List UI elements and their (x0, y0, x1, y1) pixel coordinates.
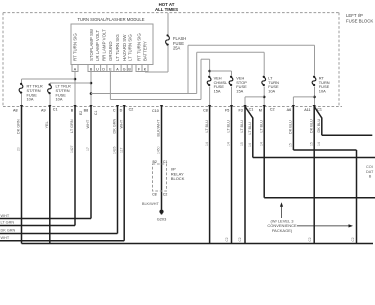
svg-text:B2: B2 (153, 160, 157, 164)
svg-text:D: D (102, 67, 105, 71)
svg-text:15A: 15A (236, 89, 243, 94)
svg-text:1426: 1426 (113, 146, 117, 154)
svg-text:LT BLU: LT BLU (227, 120, 231, 133)
svg-text:10A: 10A (268, 89, 275, 94)
svg-text:14: 14 (317, 142, 321, 146)
svg-text:C2: C2 (351, 237, 355, 241)
svg-text:DAT: DAT (366, 170, 374, 174)
svg-text:LT TURN SIG: LT TURN SIG (115, 34, 120, 61)
svg-text:YEL: YEL (45, 121, 49, 128)
svg-text:LT TURN SIG: LT TURN SIG (127, 34, 132, 61)
svg-text:10A: 10A (56, 97, 63, 102)
svg-text:DK BLU: DK BLU (317, 119, 321, 133)
svg-text:C1: C1 (163, 160, 168, 164)
svg-text:15: 15 (289, 143, 293, 147)
svg-text:14: 14 (205, 142, 209, 146)
svg-text:ALL TIMES: ALL TIMES (155, 7, 178, 12)
svg-text:F5: F5 (225, 109, 229, 113)
svg-text:B8: B8 (84, 109, 89, 113)
svg-text:25A: 25A (173, 46, 181, 51)
svg-text:C10: C10 (152, 109, 159, 113)
svg-text:STOPLAMP SW: STOPLAMP SW (89, 28, 94, 61)
svg-text:B: B (369, 175, 372, 179)
svg-text:14: 14 (248, 143, 252, 147)
svg-text:C2: C2 (308, 237, 312, 241)
svg-text:14: 14 (259, 142, 263, 146)
svg-text:LT BLU: LT BLU (259, 120, 263, 133)
svg-text:WHT: WHT (1, 214, 10, 218)
svg-text:D: D (120, 109, 123, 113)
svg-text:HOT AT: HOT AT (159, 2, 175, 7)
svg-text:DK GRN: DK GRN (17, 119, 21, 134)
svg-text:C1: C1 (53, 108, 58, 112)
svg-text:DK GRN: DK GRN (1, 229, 16, 233)
svg-text:C8: C8 (203, 109, 208, 113)
svg-text:10A: 10A (319, 89, 326, 94)
svg-text:DK GRN: DK GRN (113, 118, 117, 133)
svg-text:LT BLU: LT BLU (205, 120, 209, 133)
svg-text:DK BLU: DK BLU (289, 120, 293, 134)
svg-text:WHT: WHT (1, 236, 10, 240)
svg-text:117: 117 (119, 147, 123, 153)
svg-text:1450: 1450 (157, 146, 161, 154)
svg-text:RT TURN SIG: RT TURN SIG (73, 33, 78, 61)
svg-text:10A: 10A (27, 97, 34, 102)
svg-text:A11: A11 (304, 108, 310, 112)
svg-text:15: 15 (309, 142, 313, 146)
svg-text:17: 17 (86, 147, 90, 151)
svg-text:WHT: WHT (119, 119, 123, 128)
svg-text:BLK/WHT: BLK/WHT (157, 119, 161, 137)
svg-text:G: G (123, 67, 126, 71)
svg-text:U: U (96, 67, 99, 71)
svg-text:BLK/WHT: BLK/WHT (142, 202, 160, 206)
svg-text:LT GRN: LT GRN (70, 119, 74, 133)
svg-text:15A: 15A (214, 89, 221, 94)
svg-text:C8: C8 (152, 193, 157, 197)
svg-text:C2: C2 (129, 108, 134, 112)
svg-text:LT BLU: LT BLU (248, 122, 252, 135)
svg-text:RT TURN SIG: RT TURN SIG (137, 33, 142, 61)
svg-text:RR LAMP VOLT: RR LAMP VOLT (101, 29, 106, 61)
svg-text:LEFT I/P: LEFT I/P (346, 13, 363, 18)
svg-text:FUSE BLOCK: FUSE BLOCK (346, 19, 373, 24)
svg-text:A8: A8 (13, 109, 18, 113)
svg-text:LR LAMP VOLT: LR LAMP VOLT (95, 30, 100, 61)
svg-text:G203: G203 (157, 216, 167, 221)
svg-text:C2: C2 (225, 237, 229, 241)
svg-text:DK BLU: DK BLU (309, 119, 313, 133)
svg-text:C2: C2 (238, 237, 242, 241)
svg-text:C1: C1 (249, 108, 254, 112)
svg-text:TURN SIGNAL/FLASHER MODULE: TURN SIGNAL/FLASHER MODULE (78, 17, 145, 22)
svg-text:PACKAGE): PACKAGE) (272, 228, 293, 233)
svg-text:E2: E2 (79, 111, 83, 115)
svg-text:C2: C2 (163, 193, 168, 197)
svg-text:LT GRN: LT GRN (1, 221, 15, 225)
svg-text:C2: C2 (270, 108, 275, 112)
svg-text:BLOCK: BLOCK (171, 176, 185, 181)
svg-text:C: C (113, 109, 116, 113)
svg-text:1427: 1427 (70, 145, 74, 153)
svg-text:WHT: WHT (86, 119, 90, 128)
svg-text:COI: COI (366, 165, 373, 169)
svg-text:BATTERY: BATTERY (143, 41, 148, 61)
svg-text:C1: C1 (94, 111, 98, 115)
svg-text:20: 20 (17, 147, 21, 151)
svg-text:LT BLU: LT BLU (240, 120, 244, 133)
svg-text:15: 15 (240, 142, 244, 146)
svg-text:A6: A6 (287, 108, 292, 112)
svg-text:F3: F3 (238, 109, 242, 113)
svg-text:14: 14 (227, 142, 231, 146)
svg-text:A9: A9 (41, 109, 46, 113)
svg-text:GROUND: GROUND (108, 41, 113, 61)
svg-text:HAZARD SW: HAZARD SW (122, 34, 127, 61)
svg-text:M: M (259, 109, 262, 113)
